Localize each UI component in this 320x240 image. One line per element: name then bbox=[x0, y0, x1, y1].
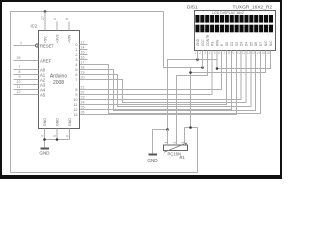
pin D2 bbox=[75, 51, 87, 58]
node GND junction at pot bbox=[166, 128, 169, 131]
svg-text:13: 13 bbox=[73, 113, 77, 117]
svg-text:RESET: RESET bbox=[40, 43, 54, 48]
svg-text:1: 1 bbox=[194, 51, 196, 55]
svg-text:12: 12 bbox=[81, 41, 85, 45]
svg-text:R1: R1 bbox=[180, 155, 186, 160]
svg-text:+5V: +5V bbox=[44, 36, 48, 43]
pin D7 bbox=[75, 76, 84, 83]
pin D8 bbox=[75, 86, 84, 93]
svg-text:14: 14 bbox=[81, 46, 85, 50]
wire LCD D7 to Arduino D4 bbox=[80, 51, 261, 114]
svg-text:N/C: N/C bbox=[264, 40, 268, 46]
pin +3V3 top bbox=[53, 18, 60, 43]
wire LCD E to Arduino D8 bbox=[80, 51, 222, 90]
wire LCD VCC pin drop bbox=[202, 51, 204, 68]
svg-text:16: 16 bbox=[266, 51, 270, 55]
svg-text:11: 11 bbox=[74, 103, 78, 107]
pin GND1 bottom bbox=[41, 118, 48, 140]
svg-text:8: 8 bbox=[19, 70, 21, 74]
wire +5V drop x=163 bbox=[164, 12, 203, 68]
svg-text:GND: GND bbox=[196, 38, 200, 46]
svg-text:16: 16 bbox=[81, 56, 85, 60]
pin D4 bbox=[75, 61, 84, 68]
node LCD VCC junction bbox=[201, 66, 204, 69]
svg-text:+3V3: +3V3 bbox=[56, 35, 60, 44]
svg-text:GND: GND bbox=[147, 158, 158, 163]
wire LCD pin16 to GND bbox=[217, 51, 271, 69]
svg-text:12: 12 bbox=[247, 51, 251, 55]
IC2 Arduino body bbox=[39, 31, 80, 129]
node pin16 junction bbox=[216, 67, 219, 70]
svg-text:6: 6 bbox=[65, 18, 69, 20]
LCD pin stubs and numbers bbox=[194, 51, 270, 57]
svg-text:D2: D2 bbox=[235, 42, 239, 46]
wire LCD RS to Arduino D9 bbox=[80, 51, 213, 95]
svg-text:Arduino: Arduino bbox=[50, 74, 67, 80]
svg-text:+VIN: +VIN bbox=[68, 35, 72, 43]
svg-text:2008: 2008 bbox=[53, 80, 64, 86]
svg-text:DIS1: DIS1 bbox=[187, 5, 198, 11]
pin +5V top bbox=[41, 12, 48, 44]
svg-text:CONTR: CONTR bbox=[206, 34, 210, 46]
wire LCD D5 to Arduino D6 bbox=[80, 51, 252, 107]
svg-text:1: 1 bbox=[164, 142, 168, 144]
svg-text:3: 3 bbox=[204, 51, 206, 55]
svg-text:7: 7 bbox=[75, 78, 77, 82]
border frame bbox=[1, 1, 281, 178]
wire LCD D6 to Arduino D5 bbox=[80, 51, 256, 111]
pin D3 bbox=[75, 56, 87, 63]
svg-text:21: 21 bbox=[81, 86, 85, 90]
svg-text:A5: A5 bbox=[40, 92, 46, 97]
svg-text:10: 10 bbox=[17, 80, 21, 84]
svg-text:9: 9 bbox=[75, 93, 77, 97]
pin A1 bbox=[14, 70, 46, 77]
pot pin labels bbox=[164, 142, 185, 144]
svg-text:3: 3 bbox=[75, 58, 77, 62]
svg-text:6: 6 bbox=[66, 135, 70, 137]
svg-text:9: 9 bbox=[19, 75, 21, 79]
svg-text:GND: GND bbox=[39, 151, 50, 156]
svg-text:5: 5 bbox=[53, 135, 57, 137]
pin A4 bbox=[14, 85, 46, 92]
pin D9 bbox=[75, 91, 84, 98]
wire GND drop Arduino bbox=[44, 140, 46, 149]
pin A0 bbox=[14, 65, 46, 72]
svg-text:24: 24 bbox=[81, 101, 85, 105]
svg-text:GND: GND bbox=[68, 118, 72, 126]
svg-text:4: 4 bbox=[41, 135, 45, 137]
svg-text:IC2: IC2 bbox=[31, 24, 38, 29]
svg-text:0: 0 bbox=[75, 43, 77, 47]
svg-text:4: 4 bbox=[209, 51, 211, 55]
wire GND to symbol bbox=[153, 130, 168, 155]
display character cells row 1 bbox=[195, 15, 273, 23]
svg-text:AREF: AREF bbox=[40, 58, 52, 63]
svg-text:N/C: N/C bbox=[269, 40, 273, 46]
pin D10 bbox=[73, 96, 84, 103]
pin A5 bbox=[14, 90, 46, 97]
node GND junction 1 bbox=[43, 138, 46, 141]
wire LCD pin15 to +5V bbox=[191, 51, 266, 73]
svg-text:28: 28 bbox=[17, 56, 21, 60]
wire LCD R/W pin drop to GND bbox=[216, 51, 218, 69]
wire LCD D0 to Arduino D11 bbox=[80, 51, 227, 105]
pin AREF bbox=[14, 56, 52, 63]
svg-text:18: 18 bbox=[81, 66, 85, 70]
pot pin 2 stub bbox=[176, 140, 178, 145]
wire LCD D1 to Arduino D12 bbox=[80, 51, 232, 110]
wire GND LCD rail y=59 bbox=[168, 60, 218, 130]
svg-text:2: 2 bbox=[53, 18, 57, 20]
pin GND3 bottom bbox=[66, 118, 73, 140]
potentiometer R1 body bbox=[164, 143, 188, 153]
display DIS1 body bbox=[195, 11, 276, 51]
svg-text:4: 4 bbox=[75, 63, 77, 67]
svg-text:GND: GND bbox=[43, 118, 47, 126]
pin D13 bbox=[73, 111, 84, 118]
pin D12 bbox=[73, 106, 84, 113]
pin A2 bbox=[14, 75, 46, 82]
svg-text:8: 8 bbox=[228, 51, 230, 55]
pin D0 bbox=[75, 41, 87, 48]
svg-text:19: 19 bbox=[81, 71, 85, 75]
svg-text:D1: D1 bbox=[230, 42, 234, 46]
node pin15 junction bbox=[189, 71, 192, 74]
svg-text:7: 7 bbox=[223, 51, 225, 55]
LCD pin labels bbox=[196, 34, 273, 46]
svg-text:12: 12 bbox=[17, 90, 21, 94]
svg-text:26: 26 bbox=[81, 111, 85, 115]
pin +VIN top bbox=[65, 18, 72, 43]
svg-text:8: 8 bbox=[75, 88, 77, 92]
svg-text:2: 2 bbox=[199, 51, 201, 55]
svg-text:GND: GND bbox=[56, 118, 60, 126]
pin GND2 bottom bbox=[53, 118, 60, 140]
svg-text:VCC: VCC bbox=[201, 39, 205, 46]
wire LCD CONTR to pot wiper bbox=[177, 51, 208, 140]
pin RESET bbox=[14, 41, 55, 48]
pin D6 bbox=[75, 71, 84, 78]
svg-text:10: 10 bbox=[237, 51, 241, 55]
wire LCD D2 to Arduino D13 bbox=[80, 51, 237, 115]
svg-text:11: 11 bbox=[242, 51, 246, 55]
svg-text:2: 2 bbox=[173, 142, 177, 144]
svg-text:D6: D6 bbox=[254, 42, 258, 46]
wire +5V bottom rail bbox=[11, 128, 198, 173]
wire GND bus Arduino bbox=[45, 139, 70, 141]
svg-text:12: 12 bbox=[73, 108, 77, 112]
svg-text:6: 6 bbox=[218, 51, 220, 55]
svg-text:LCD DISPLAY 16x2: LCD DISPLAY 16x2 bbox=[212, 11, 244, 15]
ground symbol Arduino bbox=[39, 149, 50, 156]
svg-text:1: 1 bbox=[75, 48, 77, 52]
svg-text:D0: D0 bbox=[225, 42, 229, 46]
node GND junction at LCD pin1 bbox=[196, 58, 199, 61]
svg-text:3: 3 bbox=[181, 142, 185, 144]
svg-text:5: 5 bbox=[214, 51, 216, 55]
svg-text:D4: D4 bbox=[245, 42, 249, 46]
wire LCD GND pin drop bbox=[197, 51, 199, 60]
pot pin 1 stub bbox=[167, 130, 169, 146]
svg-text:10: 10 bbox=[73, 98, 77, 102]
svg-text:D7: D7 bbox=[259, 42, 263, 46]
svg-text:15: 15 bbox=[261, 51, 265, 55]
svg-text:25: 25 bbox=[81, 106, 85, 110]
node +5V junction at Arduino 5V pin bbox=[44, 10, 47, 13]
node GND junction 2 bbox=[56, 138, 59, 141]
svg-text:17: 17 bbox=[81, 61, 85, 65]
svg-text:23: 23 bbox=[81, 96, 85, 100]
svg-text:R/W: R/W bbox=[216, 40, 220, 46]
pin D5 bbox=[75, 66, 84, 73]
wire LCD D4 to Arduino D7 bbox=[80, 51, 247, 103]
pin D11 bbox=[74, 101, 85, 108]
display character cells row 2 bbox=[195, 25, 273, 33]
node +5V junction bottom T bbox=[189, 126, 192, 129]
svg-text:13: 13 bbox=[251, 51, 255, 55]
svg-text:RS: RS bbox=[211, 42, 215, 46]
wire +5V branch to LCD VCC bbox=[190, 68, 192, 128]
svg-text:15: 15 bbox=[81, 51, 85, 55]
svg-text:D3: D3 bbox=[240, 42, 244, 46]
pin A3 bbox=[14, 80, 46, 87]
pot pin 3 stub bbox=[184, 128, 186, 146]
svg-text:14: 14 bbox=[256, 51, 260, 55]
pin D1 bbox=[75, 46, 87, 53]
svg-text:E: E bbox=[220, 44, 224, 46]
svg-text:22: 22 bbox=[81, 91, 85, 95]
svg-text:1: 1 bbox=[20, 41, 22, 45]
svg-text:20: 20 bbox=[81, 76, 85, 80]
svg-text:5: 5 bbox=[75, 68, 77, 72]
svg-text:7: 7 bbox=[19, 65, 21, 69]
svg-text:9: 9 bbox=[232, 51, 234, 55]
svg-text:6: 6 bbox=[75, 73, 77, 77]
svg-text:27: 27 bbox=[41, 16, 45, 20]
wire LCD D3 to Arduino D10 bbox=[80, 51, 242, 100]
ground symbol near pot bbox=[147, 155, 158, 164]
svg-text:D5: D5 bbox=[250, 42, 254, 46]
svg-text:11: 11 bbox=[17, 85, 21, 89]
wire +5V top rail bbox=[11, 12, 164, 173]
svg-text:TUXGR_16X2_R2: TUXGR_16X2_R2 bbox=[233, 5, 273, 11]
svg-text:2: 2 bbox=[75, 53, 77, 57]
